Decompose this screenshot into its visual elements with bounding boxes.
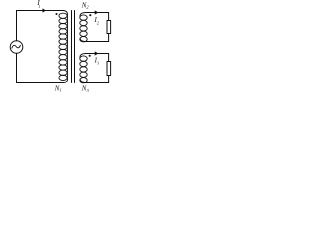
dot primary (55, 13, 57, 15)
arrow I1 (43, 8, 47, 12)
dot N2 (89, 14, 91, 16)
primary winding N1 coil (59, 13, 68, 80)
wire N3 loop bottom (85, 76, 109, 83)
core line right (74, 11, 76, 83)
core line left (71, 11, 73, 83)
wire primary bottom (17, 82, 64, 84)
wire N3 loop top (86, 54, 109, 62)
ac source (10, 41, 23, 54)
wire N2 loop bottom (85, 34, 109, 42)
wire primary left lower (16, 53, 18, 82)
dot N3 (89, 55, 91, 57)
wire curl N2 top (80, 13, 86, 17)
wire primary left upper (16, 11, 18, 41)
wire curl N2 bottom (80, 38, 85, 41)
wire curl N3 bottom (80, 79, 85, 82)
primary feed line (67, 14, 69, 80)
secondary N3 coil (80, 56, 87, 83)
resistor R2 (107, 21, 111, 34)
wire curve from primary coil bottom (63, 80, 68, 83)
wire curl N3 top (80, 54, 86, 58)
wire N2 loop top (86, 13, 109, 21)
secondary N2 coil (80, 15, 87, 42)
resistor R3 (107, 62, 111, 76)
arrow I2 (95, 10, 99, 14)
wire curve into primary coil top (64, 11, 68, 15)
wire primary top (17, 10, 64, 12)
arrow I3 (95, 51, 99, 55)
